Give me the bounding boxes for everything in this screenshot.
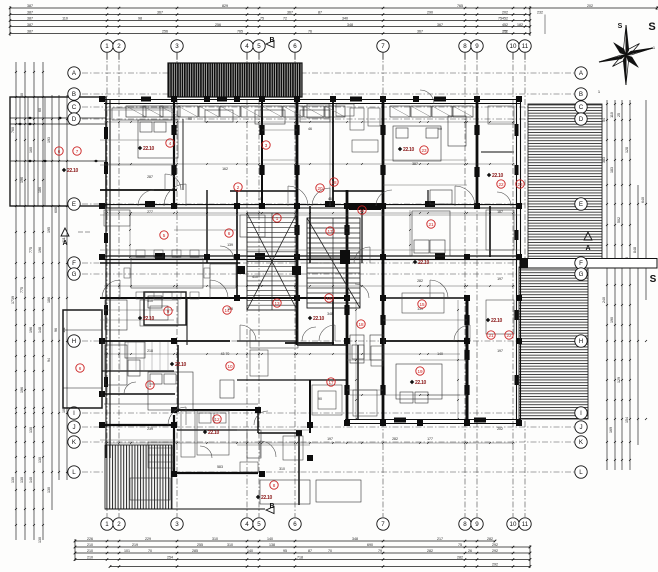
svg-text:760: 760 [11, 127, 15, 133]
svg-text:87: 87 [318, 11, 322, 15]
svg-text:18: 18 [331, 180, 337, 185]
svg-text:1: 1 [105, 521, 109, 528]
svg-text:11: 11 [522, 43, 529, 50]
svg-text:J: J [72, 424, 75, 431]
entry porch hatch bottom-left (vertical planks) [105, 445, 172, 509]
svg-text:8: 8 [273, 483, 276, 488]
svg-text:101: 101 [124, 549, 130, 553]
svg-text:11: 11 [522, 521, 529, 528]
svg-text:4: 4 [245, 43, 249, 50]
svg-text:277: 277 [147, 210, 153, 214]
svg-text:110: 110 [62, 17, 68, 21]
grid column bubbles bottom [101, 518, 531, 530]
svg-text:90: 90 [438, 127, 442, 131]
svg-text:4: 4 [245, 521, 249, 528]
svg-text:182: 182 [517, 23, 523, 27]
section marker A right [584, 232, 592, 252]
svg-text:452: 452 [502, 17, 508, 21]
svg-text:J: J [579, 424, 582, 431]
svg-text:140: 140 [29, 477, 33, 483]
svg-text:26: 26 [468, 549, 472, 553]
svg-text:130: 130 [29, 427, 33, 433]
svg-text:3: 3 [175, 521, 179, 528]
svg-text:452: 452 [502, 23, 508, 27]
svg-text:10: 10 [510, 521, 517, 528]
dining chairs [124, 250, 210, 299]
svg-text:282: 282 [392, 437, 398, 441]
grid row bubbles left [68, 67, 80, 478]
svg-text:196: 196 [29, 327, 33, 333]
svg-text:75: 75 [260, 17, 264, 21]
red level labels [62, 146, 504, 501]
compass labels [598, 21, 657, 285]
svg-text:70: 70 [148, 549, 152, 553]
staircase right (treads) [307, 218, 360, 308]
vertical dim strings interior [129, 104, 459, 420]
svg-text:410: 410 [252, 275, 258, 279]
svg-text:9: 9 [475, 43, 479, 50]
svg-text:87: 87 [308, 549, 312, 553]
svg-text:169: 169 [609, 427, 613, 433]
svg-text:148: 148 [38, 327, 42, 333]
svg-text:D: D [72, 116, 77, 123]
svg-text:282: 282 [427, 549, 433, 553]
svg-text:130: 130 [20, 477, 24, 483]
svg-text:90: 90 [188, 117, 192, 121]
svg-text:22.10: 22.10 [143, 316, 155, 322]
svg-text:14: 14 [359, 208, 365, 213]
svg-text:98: 98 [138, 17, 142, 21]
svg-text:217: 217 [437, 537, 443, 541]
svg-text:17: 17 [328, 380, 334, 385]
svg-text:775: 775 [20, 287, 24, 293]
structural columns [99, 96, 522, 477]
svg-text:E: E [579, 201, 583, 208]
svg-text:583: 583 [217, 465, 223, 469]
svg-text:22.10: 22.10 [261, 495, 273, 501]
svg-text:S: S [648, 21, 655, 33]
svg-text:1: 1 [105, 43, 109, 50]
svg-text:139: 139 [227, 243, 233, 247]
svg-text:186: 186 [47, 297, 51, 303]
svg-text:219: 219 [132, 543, 138, 547]
right dimension numbers (rotated) [602, 112, 645, 433]
svg-text:17: 17 [327, 229, 333, 234]
svg-text:196: 196 [38, 247, 42, 253]
svg-text:367: 367 [437, 23, 443, 27]
svg-text:I: I [73, 410, 75, 417]
svg-text:1739: 1739 [11, 296, 15, 304]
closets along top wall [126, 106, 473, 117]
svg-text:22.10: 22.10 [208, 430, 220, 436]
svg-text:187: 187 [497, 210, 503, 214]
svg-text:197: 197 [497, 277, 503, 281]
svg-text:22.10: 22.10 [491, 318, 503, 324]
svg-text:310: 310 [227, 543, 233, 547]
grid column bubbles top [101, 40, 531, 60]
svg-text:162: 162 [222, 167, 228, 171]
svg-text:2: 2 [117, 521, 121, 528]
svg-text:387: 387 [27, 23, 33, 27]
svg-text:9: 9 [167, 309, 170, 314]
svg-text:14: 14 [224, 308, 230, 313]
svg-text:A: A [62, 240, 67, 247]
svg-text:22.10: 22.10 [143, 146, 155, 152]
entry steps [148, 442, 174, 468]
right lower deck hatch (horizontal planks) [519, 267, 588, 419]
svg-text:140: 140 [247, 549, 253, 553]
svg-text:2: 2 [237, 185, 240, 190]
svg-text:210: 210 [87, 543, 93, 547]
svg-text:22.10: 22.10 [418, 260, 430, 266]
svg-text:75: 75 [458, 543, 462, 547]
svg-text:256: 256 [162, 30, 168, 34]
svg-text:E: E [72, 201, 76, 208]
svg-text:70: 70 [328, 549, 332, 553]
svg-text:226: 226 [87, 537, 93, 541]
svg-text:L: L [72, 469, 76, 476]
section marker B bottom [266, 503, 275, 514]
svg-text:76: 76 [308, 30, 312, 34]
left dimension numbers (rotated) [11, 93, 66, 543]
svg-text:46: 46 [308, 127, 312, 131]
svg-text:387: 387 [27, 11, 33, 15]
svg-text:94: 94 [47, 358, 51, 362]
svg-text:348: 348 [327, 312, 333, 316]
left balcony box [63, 310, 102, 408]
extra door arcs [124, 90, 511, 458]
svg-text:A: A [585, 245, 590, 252]
svg-text:5: 5 [257, 521, 261, 528]
svg-text:5: 5 [257, 43, 261, 50]
svg-text:848: 848 [633, 247, 637, 253]
svg-text:282: 282 [417, 279, 423, 283]
svg-text:6: 6 [293, 43, 297, 50]
svg-text:640: 640 [641, 197, 645, 203]
svg-text:348: 348 [347, 23, 353, 27]
svg-text:256: 256 [215, 23, 221, 27]
vertical grid axis lines [107, 53, 525, 517]
svg-text:202: 202 [502, 11, 508, 15]
svg-text:367: 367 [417, 30, 423, 34]
svg-text:210: 210 [87, 549, 93, 553]
bottom dimension numbers [87, 537, 498, 567]
svg-text:6: 6 [58, 149, 61, 154]
roof hatch top (vertical battens) [168, 63, 302, 97]
wc room and extra partitions [104, 292, 258, 412]
svg-text:387: 387 [27, 4, 33, 8]
svg-text:292: 292 [492, 543, 498, 547]
svg-text:15: 15 [326, 296, 332, 301]
svg-text:10: 10 [227, 364, 233, 369]
wall chunks midspan [104, 97, 519, 423]
left vertical dimension lines [15, 62, 68, 540]
svg-text:1: 1 [276, 216, 279, 221]
svg-text:6: 6 [228, 231, 231, 236]
svg-text:54: 54 [602, 118, 606, 122]
svg-text:195: 195 [47, 227, 51, 233]
svg-text:20: 20 [317, 186, 323, 191]
svg-text:383: 383 [602, 157, 606, 163]
svg-text:C: C [72, 104, 77, 111]
svg-text:21: 21 [428, 222, 434, 227]
interior detail lines [100, 130, 520, 445]
svg-text:10: 10 [510, 43, 517, 50]
svg-text:43 70: 43 70 [221, 352, 230, 356]
svg-text:229: 229 [145, 537, 151, 541]
svg-text:310: 310 [212, 537, 218, 541]
svg-text:7: 7 [381, 43, 385, 50]
svg-text:7: 7 [381, 521, 385, 528]
svg-text:128: 128 [625, 147, 629, 153]
svg-text:340: 340 [342, 17, 348, 21]
section marker A left [61, 228, 90, 247]
svg-text:7: 7 [76, 149, 79, 154]
svg-text:232: 232 [537, 11, 543, 15]
svg-text:310: 310 [279, 467, 285, 471]
svg-text:154: 154 [625, 417, 629, 423]
svg-text:254: 254 [167, 556, 173, 560]
svg-text:D: D [579, 116, 584, 123]
svg-text:3: 3 [175, 43, 179, 50]
svg-text:190: 190 [610, 317, 614, 323]
svg-text:130: 130 [38, 537, 42, 543]
svg-text:L: L [579, 469, 583, 476]
svg-text:22: 22 [506, 333, 512, 338]
svg-text:239: 239 [147, 427, 153, 431]
svg-text:765: 765 [237, 30, 243, 34]
svg-text:25: 25 [617, 113, 621, 117]
extra stair-side wall chunks [237, 203, 381, 275]
bathroom tiles [104, 342, 168, 370]
svg-text:90: 90 [318, 397, 322, 401]
svg-text:B: B [72, 91, 76, 98]
svg-text:502: 502 [617, 217, 621, 223]
svg-text:B: B [579, 91, 583, 98]
extra wall chunks verticals [171, 125, 479, 395]
red room number markers [55, 139, 524, 489]
interior dimension strings [104, 121, 515, 444]
svg-text:130: 130 [47, 487, 51, 493]
svg-text:177: 177 [427, 437, 433, 441]
terrace diamonds [18, 117, 99, 163]
svg-text:606: 606 [54, 207, 58, 213]
svg-text:130: 130 [11, 477, 15, 483]
svg-text:240: 240 [602, 297, 606, 303]
svg-text:90: 90 [258, 197, 262, 201]
svg-text:21: 21 [488, 333, 494, 338]
right vertical dimension lines [606, 100, 647, 470]
svg-text:718: 718 [297, 556, 303, 560]
top dimension chain lines [9, 6, 658, 36]
svg-text:S: S [618, 23, 623, 30]
svg-text:15: 15 [419, 302, 425, 307]
section marker B top [266, 37, 275, 48]
svg-text:292: 292 [492, 563, 498, 567]
svg-text:140: 140 [437, 352, 443, 356]
svg-text:290: 290 [427, 11, 433, 15]
svg-text:129: 129 [617, 377, 621, 383]
svg-text:22.10: 22.10 [175, 362, 187, 368]
door swing arcs [102, 174, 475, 457]
compass rose [599, 25, 653, 85]
svg-text:197: 197 [497, 349, 503, 353]
svg-text:22.10: 22.10 [313, 316, 325, 322]
svg-text:H: H [579, 338, 583, 345]
svg-text:160: 160 [29, 147, 33, 153]
svg-text:22.10: 22.10 [67, 168, 79, 174]
staircase left (treads) [247, 213, 297, 310]
svg-text:202: 202 [497, 427, 503, 431]
extra wall segments [102, 298, 467, 420]
svg-text:218: 218 [147, 349, 153, 353]
horizontal grid axis lines [82, 73, 574, 472]
svg-text:765: 765 [457, 4, 463, 8]
svg-text:8: 8 [463, 521, 467, 528]
svg-text:1: 1 [149, 383, 152, 388]
svg-text:287: 287 [147, 175, 153, 179]
svg-text:829: 829 [222, 4, 228, 8]
svg-text:282: 282 [487, 537, 493, 541]
svg-text:4: 4 [169, 141, 172, 146]
svg-text:775: 775 [29, 247, 33, 253]
svg-text:18: 18 [358, 322, 364, 327]
svg-text:H: H [72, 338, 76, 345]
svg-text:140: 140 [267, 537, 273, 541]
svg-text:79: 79 [378, 549, 382, 553]
svg-text:8: 8 [463, 43, 467, 50]
right upper deck hatch (horizontal planks) [528, 104, 602, 261]
svg-text:130: 130 [38, 457, 42, 463]
svg-text:60: 60 [38, 108, 42, 112]
svg-text:197: 197 [327, 437, 333, 441]
svg-text:95: 95 [283, 549, 287, 553]
svg-text:255: 255 [197, 543, 203, 547]
svg-text:22.10: 22.10 [415, 380, 427, 386]
svg-text:2: 2 [117, 43, 121, 50]
svg-text:5: 5 [163, 233, 166, 238]
svg-text:G: G [579, 271, 584, 278]
short wall seg right [481, 151, 514, 153]
left terrace panel [10, 97, 106, 206]
svg-text:9: 9 [475, 521, 479, 528]
svg-text:C: C [579, 104, 584, 111]
svg-text:387: 387 [27, 17, 33, 21]
svg-text:12: 12 [214, 417, 220, 422]
svg-text:22.10: 22.10 [492, 173, 504, 179]
svg-text:348: 348 [352, 537, 358, 541]
svg-text:72: 72 [283, 17, 287, 21]
svg-text:202: 202 [587, 4, 593, 8]
svg-text:6: 6 [293, 521, 297, 528]
svg-text:19: 19 [417, 369, 423, 374]
outer and inner walls [100, 97, 522, 509]
top dimension numbers [27, 4, 593, 34]
svg-text:367: 367 [287, 11, 293, 15]
svg-text:285: 285 [192, 549, 198, 553]
svg-text:282: 282 [457, 556, 463, 560]
svg-text:S: S [650, 274, 657, 285]
svg-text:690: 690 [367, 543, 373, 547]
svg-text:F: F [579, 260, 583, 267]
svg-text:22.10: 22.10 [403, 147, 415, 153]
bottom dimension chain lines [74, 539, 532, 568]
svg-text:110: 110 [610, 112, 614, 118]
svg-text:96: 96 [54, 328, 58, 332]
svg-text:22: 22 [498, 182, 504, 187]
svg-text:183: 183 [610, 167, 614, 173]
right beam strip at row F [520, 259, 657, 269]
svg-text:387: 387 [412, 162, 418, 166]
svg-text:196: 196 [20, 177, 24, 183]
svg-text:23: 23 [421, 148, 427, 153]
svg-text:G: G [72, 271, 77, 278]
extra furniture round2 [104, 104, 514, 472]
svg-text:13: 13 [274, 301, 280, 306]
top wall inner line [104, 109, 174, 111]
svg-text:387: 387 [27, 30, 33, 34]
svg-text:I: I [580, 410, 582, 417]
svg-text:3: 3 [265, 143, 268, 148]
svg-text:138: 138 [269, 543, 275, 547]
grid row bubbles right [575, 67, 587, 478]
svg-text:193: 193 [47, 137, 51, 143]
svg-text:292: 292 [492, 549, 498, 553]
interior dimension numbers [147, 117, 503, 471]
svg-text:75: 75 [503, 30, 507, 34]
svg-text:196: 196 [20, 387, 24, 393]
furniture: beds tables fixtures [105, 108, 466, 504]
svg-text:23: 23 [517, 182, 523, 187]
svg-text:6: 6 [79, 366, 82, 371]
svg-text:367: 367 [157, 11, 163, 15]
svg-text:186: 186 [38, 187, 42, 193]
svg-text:210: 210 [87, 556, 93, 560]
svg-text:F: F [72, 260, 76, 267]
